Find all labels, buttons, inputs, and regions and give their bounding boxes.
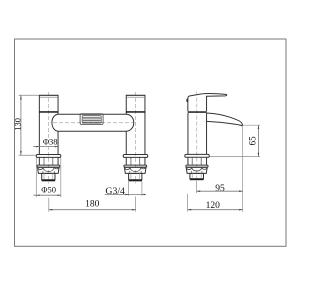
dim G3/4 extension lines <box>128 181 130 196</box>
centerline right pillar <box>135 92 137 184</box>
right flange <box>123 155 148 158</box>
centerline left pillar <box>48 92 50 184</box>
right hex nut <box>124 167 146 173</box>
left pillar neck <box>39 157 58 165</box>
svg-text:130: 130 <box>12 118 22 131</box>
left flange <box>36 155 61 158</box>
body stadium <box>52 114 134 131</box>
dim 130 extension bottom <box>19 154 37 156</box>
right pillar cap inner line <box>126 96 145 98</box>
side view spout top curve <box>207 113 243 125</box>
left tail bottom thick <box>42 180 56 182</box>
grille slats <box>83 117 101 122</box>
grille outer frame <box>80 114 103 125</box>
dim 130 extension top <box>19 94 39 96</box>
border frame <box>15 39 287 246</box>
right pillar neck <box>126 157 145 165</box>
dim phi38 arrows <box>36 146 39 148</box>
dim phi50 arrows <box>36 194 39 196</box>
centerline body horizontal <box>53 122 133 124</box>
side view neck shank lines <box>192 157 201 165</box>
left washer <box>37 165 60 167</box>
dim phi38 line <box>33 146 58 148</box>
svg-text:Φ50: Φ50 <box>41 185 56 195</box>
side view tail <box>190 173 204 178</box>
right tail bottom thick <box>129 180 143 182</box>
side view washer <box>186 165 208 167</box>
dim 180 line <box>49 209 136 211</box>
dim 120 line <box>188 209 243 211</box>
dim 180 extension lines <box>48 198 50 212</box>
dim 130 line <box>20 95 22 155</box>
side view handle knob <box>186 99 188 102</box>
dim 130 arrows <box>20 95 22 99</box>
left pillar neck shank lines <box>44 157 53 165</box>
dim phi50 line <box>33 194 61 196</box>
left hex nut <box>38 167 60 173</box>
side view body sides <box>188 113 207 155</box>
dim phi50 extension lines <box>35 158 37 198</box>
dim 65 extension top <box>243 124 260 126</box>
spout tip extension line <box>242 127 244 212</box>
dim 65 line <box>257 125 259 156</box>
svg-text:180: 180 <box>85 199 100 209</box>
svg-text:Φ38: Φ38 <box>43 136 58 146</box>
right washer <box>124 165 147 167</box>
dim G3/4 line <box>105 194 146 196</box>
dim 65 extension bottom <box>209 156 260 158</box>
dim G3/4 arrows <box>125 194 128 196</box>
left pillar cap top <box>39 94 59 96</box>
dim 180 arrows <box>49 209 53 211</box>
side view neck <box>188 157 207 165</box>
svg-text:95: 95 <box>215 184 225 194</box>
dim 65 arrows <box>258 125 260 129</box>
side view spout tip face <box>241 124 243 126</box>
right tail <box>129 173 142 179</box>
grille inner frame <box>82 116 101 123</box>
side view handle/lever <box>188 93 227 111</box>
side view tail bottom thick <box>190 179 204 181</box>
side view spout bottom curve <box>207 121 243 126</box>
dim 95 line <box>197 190 243 192</box>
side view flange <box>185 154 209 157</box>
right pillar cap top <box>126 94 146 96</box>
dim 120 arrows <box>188 209 192 211</box>
svg-text:65: 65 <box>248 136 258 146</box>
right pillar cap bottom thick <box>126 111 145 113</box>
dim 120 extension <box>187 194 189 212</box>
right pillar sides <box>126 95 145 154</box>
dim 95 extension <box>196 181 198 193</box>
side view centerline <box>196 92 198 181</box>
left pillar cap inner line <box>39 96 58 98</box>
dim 95 arrows <box>197 190 201 192</box>
left pillar cap bottom thick <box>39 111 58 113</box>
side view joint thick line <box>188 111 207 113</box>
left pillar sides <box>39 95 58 154</box>
right pillar neck shank lines <box>131 157 140 165</box>
left tail <box>42 173 55 179</box>
side view hex nut <box>186 167 207 173</box>
